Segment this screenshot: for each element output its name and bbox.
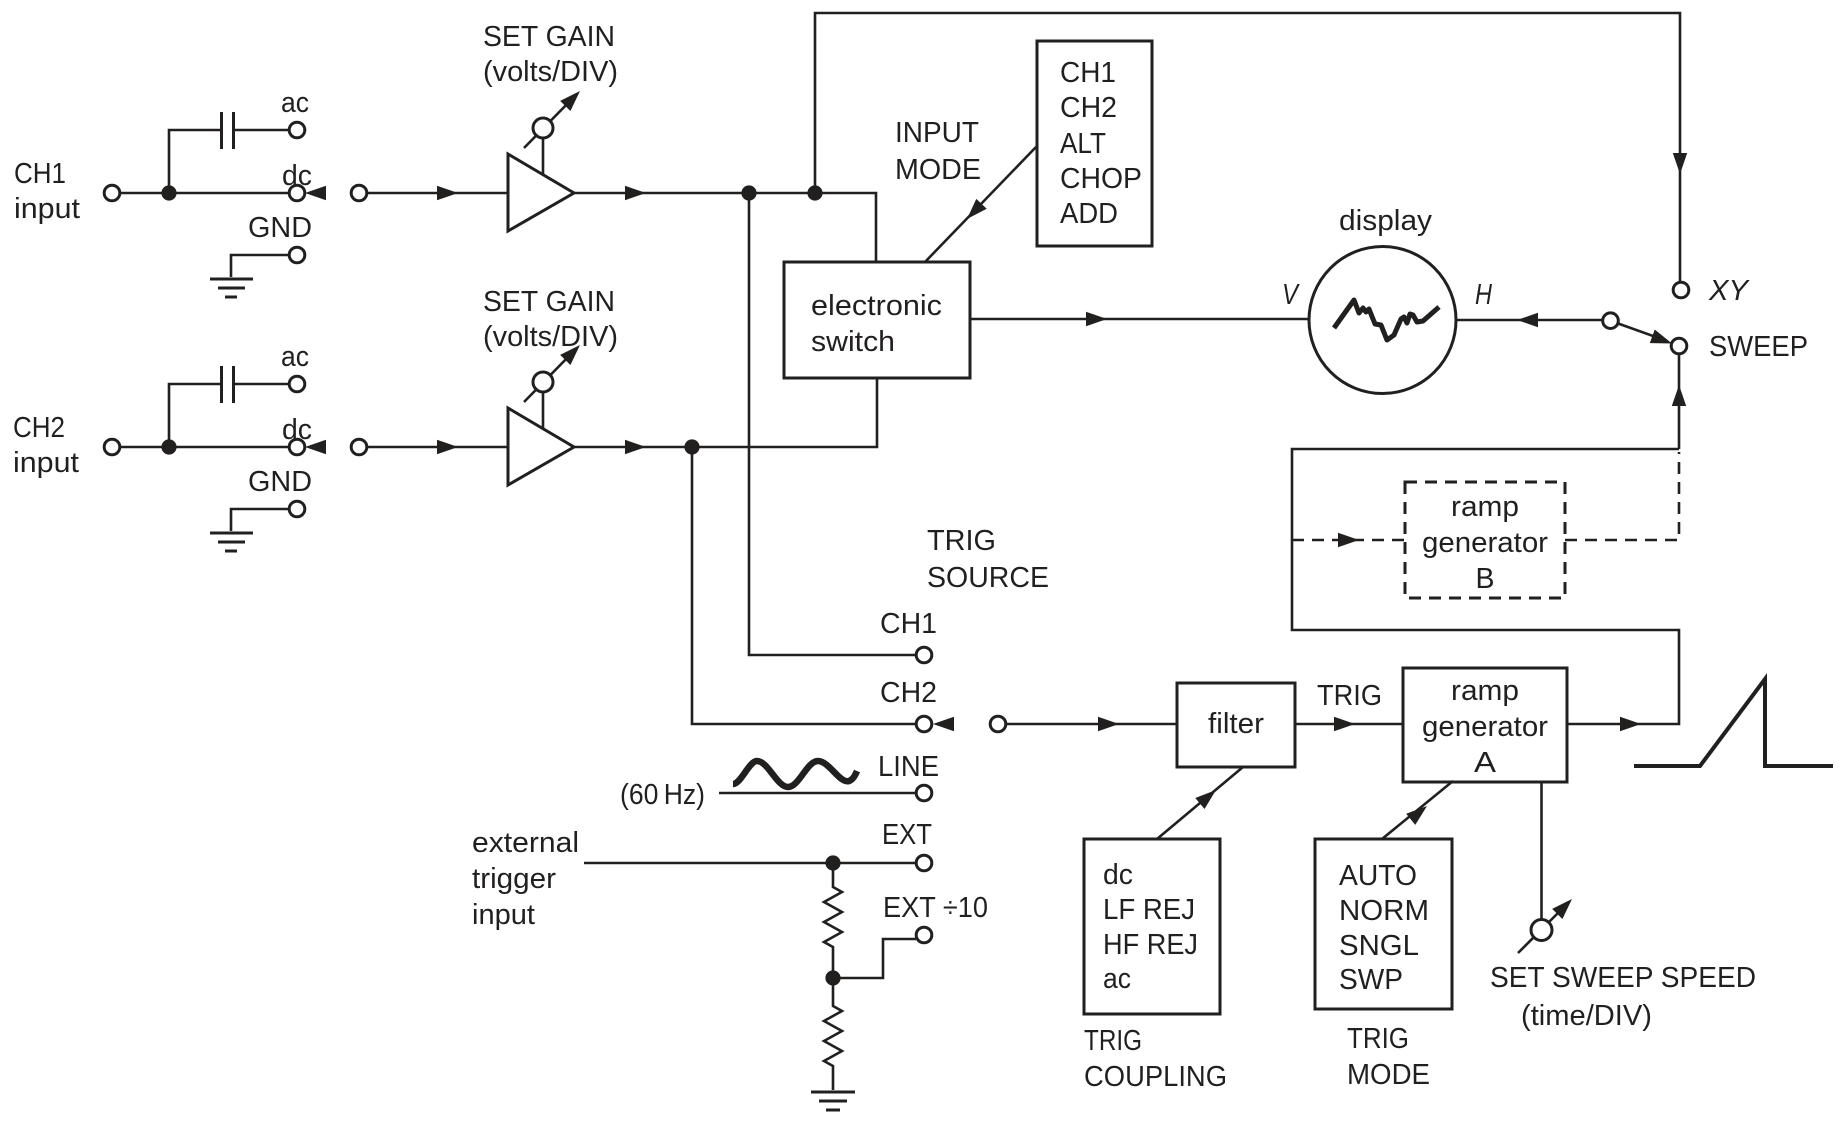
wire external trigger input	[584, 862, 916, 865]
waveform sawtooth sweep ramp	[1634, 679, 1833, 766]
svg-text:SWEEP: SWEEP	[1709, 331, 1808, 363]
svg-text:AUTO: AUTO	[1339, 860, 1417, 892]
svg-text:HF REJ: HF REJ	[1103, 929, 1198, 961]
box ramp generator B	[1405, 482, 1565, 598]
wire sweep switch arm	[1618, 323, 1655, 336]
svg-text:display: display	[1339, 205, 1433, 237]
svg-text:GND: GND	[248, 466, 312, 498]
knob CH2 gain control	[533, 372, 553, 392]
box trig mode list	[1315, 839, 1452, 1009]
terminal CH1 ac contact	[289, 122, 305, 138]
wire CH1 GND contact to ground	[231, 255, 289, 277]
arrow trig source select	[933, 717, 954, 731]
wire CH1 cap to ac contact	[235, 129, 289, 132]
arrow into XY contact	[1673, 153, 1687, 174]
svg-text:SOURCE: SOURCE	[927, 562, 1049, 594]
terminal CH1 input jack	[104, 185, 120, 201]
waveform trace on CRT	[1334, 300, 1439, 340]
amplifier CH2 vertical amp	[508, 408, 574, 485]
wire CH2 trig pickoff	[692, 447, 916, 724]
arrow mode to ramp A	[1406, 800, 1431, 824]
terminal CH2 dc contact	[289, 439, 305, 455]
display CRT circle	[1309, 247, 1456, 394]
arrow filter to ramp A	[1334, 717, 1355, 731]
wire CH2 cap to ac contact	[235, 383, 289, 386]
svg-text:trigger: trigger	[472, 863, 556, 895]
svg-text:H: H	[1475, 279, 1492, 311]
terminal sweep switch pole	[1603, 313, 1619, 329]
capacitor CH2 ac coupling	[220, 366, 223, 403]
wire ramp B input dashed	[1292, 539, 1405, 542]
svg-text:B: B	[1476, 563, 1495, 595]
ground trigger divider	[811, 1091, 855, 1094]
box trig coupling list	[1084, 839, 1220, 1014]
svg-text:input: input	[13, 447, 79, 479]
terminal trig source wiper	[990, 716, 1006, 732]
wire CH1 ac branch	[169, 130, 220, 193]
svg-text:CH2: CH2	[880, 677, 937, 709]
svg-text:EXT: EXT	[882, 819, 932, 851]
terminal SWEEP contact	[1671, 338, 1687, 354]
svg-text:external: external	[472, 827, 579, 859]
svg-text:SWP: SWP	[1339, 964, 1403, 996]
svg-text:ramp: ramp	[1451, 675, 1519, 707]
svg-text:ac: ac	[281, 341, 309, 373]
svg-text:INPUT: INPUT	[895, 117, 979, 149]
box input mode list	[1037, 41, 1152, 246]
resistor R2 divider lower	[824, 985, 842, 1090]
svg-text:ac: ac	[1103, 963, 1131, 995]
arrow trig into filter	[1098, 717, 1119, 731]
svg-text:CH1: CH1	[14, 158, 66, 190]
terminal trig source EXT	[916, 855, 932, 871]
terminal trig source LINE	[916, 785, 932, 801]
wire CH1 wiper to amp	[367, 192, 507, 195]
junction EXT divider top	[825, 855, 840, 870]
terminal CH2 ac contact	[289, 376, 305, 392]
terminal CH1 coupling wiper	[351, 185, 367, 201]
svg-text:SET GAIN: SET GAIN	[483, 21, 615, 53]
svg-text:ADD: ADD	[1060, 198, 1118, 230]
terminal trig source EXT div 10	[916, 927, 932, 943]
arrow CH2 post amp	[625, 440, 646, 454]
svg-text:TRIG: TRIG	[1317, 680, 1382, 712]
wire CH2 input to dc contact	[120, 446, 289, 449]
resistor R1 divider upper	[824, 870, 842, 971]
box ramp generator A	[1403, 668, 1567, 782]
arrow input mode to switch	[962, 199, 987, 224]
wire sweep feed up	[1678, 354, 1681, 449]
svg-text:SET GAIN: SET GAIN	[483, 286, 615, 318]
svg-text:ac: ac	[281, 87, 309, 119]
svg-text:(volts/DIV): (volts/DIV)	[483, 56, 618, 88]
terminal XY contact	[1673, 282, 1689, 298]
arrow into H input	[1517, 313, 1538, 327]
svg-text:CH2: CH2	[13, 412, 65, 444]
wire CH1 input to dc contact	[120, 192, 289, 195]
svg-text:V: V	[1282, 279, 1300, 311]
wire input mode select	[925, 147, 1036, 262]
svg-text:dc: dc	[1103, 859, 1133, 891]
svg-text:TRIG: TRIG	[1347, 1023, 1409, 1055]
svg-text:LINE: LINE	[878, 751, 939, 783]
wire LINE to terminal	[719, 792, 916, 795]
terminal CH2 coupling wiper	[351, 439, 367, 455]
arrow CH2 coupling select	[305, 440, 326, 454]
svg-text:A: A	[1474, 747, 1497, 779]
svg-text:MODE: MODE	[1347, 1059, 1430, 1091]
arrow coupling to filter	[1195, 784, 1220, 809]
svg-text:GND: GND	[248, 212, 312, 244]
arrow CH2 gain knob	[560, 340, 585, 365]
svg-text:electronic: electronic	[811, 290, 942, 322]
wire sweep speed arrow	[1518, 908, 1563, 953]
wire CH1 to XY horizontal input	[815, 13, 1680, 282]
arrow CH2 into amp	[437, 440, 458, 454]
amplifier CH1 vertical amp	[508, 154, 574, 231]
svg-text:input: input	[472, 899, 535, 931]
arrow switch to display	[1086, 312, 1107, 326]
wire CH2 ac branch	[169, 384, 220, 447]
wire CH2 gain knob stem	[542, 390, 545, 428]
svg-text:XY: XY	[1708, 275, 1751, 307]
svg-text:CH2: CH2	[1060, 92, 1117, 124]
wire switch output to display	[970, 318, 1308, 321]
wire CH1 amp output	[574, 193, 876, 262]
junction EXT divider tap	[825, 970, 840, 985]
arrow ramp B input	[1338, 533, 1359, 547]
junction CH2 trig pickoff	[684, 439, 699, 454]
svg-text:NORM: NORM	[1339, 895, 1429, 927]
svg-text:ramp: ramp	[1451, 491, 1519, 523]
junction CH1 trig pickoff	[741, 185, 756, 200]
svg-text:SET SWEEP SPEED: SET SWEEP SPEED	[1490, 962, 1756, 994]
svg-text:(60 Hz): (60 Hz)	[620, 779, 705, 811]
terminal CH1 dc contact	[289, 185, 305, 201]
svg-text:COUPLING: COUPLING	[1084, 1061, 1227, 1093]
wire CH2 GND contact to ground	[231, 509, 289, 531]
box filter	[1177, 683, 1295, 767]
terminal CH1 GND contact	[289, 247, 305, 263]
svg-text:switch: switch	[811, 326, 895, 358]
svg-text:TRIG: TRIG	[1084, 1025, 1142, 1057]
junction CH2 input node	[161, 439, 176, 454]
arrow sweep feed	[1672, 385, 1686, 406]
wire sweep loop	[1292, 449, 1679, 724]
svg-text:SNGL: SNGL	[1339, 930, 1419, 962]
capacitor CH1 ac coupling	[220, 112, 223, 149]
svg-text:MODE: MODE	[895, 154, 981, 186]
svg-text:TRIG: TRIG	[927, 525, 996, 557]
wire CH2 wiper to amp	[367, 446, 507, 449]
svg-text:ALT: ALT	[1060, 128, 1106, 160]
wire CH1 gain knob stem	[542, 136, 545, 174]
svg-text:EXT ÷10: EXT ÷10	[883, 892, 988, 924]
svg-text:filter: filter	[1208, 708, 1264, 740]
arrow ramp A output	[1620, 717, 1641, 731]
svg-text:CH1: CH1	[880, 608, 937, 640]
junction CH1 XY pickoff	[807, 185, 822, 200]
svg-text:(time/DIV): (time/DIV)	[1521, 1000, 1652, 1032]
box electronic switch U1	[784, 262, 970, 378]
wire filter to ramp A	[1295, 723, 1403, 726]
wire EXT divide 10 tap	[833, 939, 916, 978]
ground CH1 coupling	[210, 278, 253, 281]
wire CH1 gain arrow	[524, 99, 572, 148]
arrow switch arm to SWEEP	[1650, 330, 1675, 351]
svg-text:CH1: CH1	[1060, 57, 1116, 89]
svg-text:generator: generator	[1422, 711, 1548, 743]
svg-text:CHOP: CHOP	[1060, 163, 1142, 195]
wire CH2 amp output	[574, 378, 877, 447]
terminal CH2 GND contact	[289, 501, 305, 517]
wire H input from sweep switch	[1457, 319, 1602, 322]
wire ramp B output dashed	[1565, 452, 1679, 540]
knob sweep speed control	[1531, 920, 1552, 941]
waveform line sine 60Hz	[733, 761, 857, 787]
wire CH1 trig pickoff	[749, 193, 916, 655]
ground CH2 coupling	[210, 532, 253, 535]
svg-text:(volts/DIV): (volts/DIV)	[483, 321, 618, 353]
wire trig mode select	[1382, 781, 1453, 839]
terminal trig source CH2	[916, 716, 932, 732]
arrow CH1 post amp	[625, 186, 646, 200]
arrow CH1 into amp	[437, 186, 458, 200]
arrow CH1 coupling select	[305, 186, 326, 200]
terminal CH2 input jack	[104, 439, 120, 455]
wire trig coupling select	[1157, 767, 1243, 839]
svg-text:generator: generator	[1422, 527, 1548, 559]
knob CH1 gain control	[533, 118, 553, 138]
svg-text:input: input	[14, 193, 80, 225]
arrow sweep speed knob	[1552, 894, 1577, 919]
wire trig wiper to filter	[1006, 723, 1177, 726]
arrow CH1 gain knob	[560, 86, 585, 111]
junction CH1 input node	[161, 185, 176, 200]
terminal trig source CH1	[916, 647, 932, 663]
wire CH2 gain arrow	[524, 353, 572, 402]
svg-text:LF REJ: LF REJ	[1103, 894, 1195, 926]
wire ramp A to sweep speed knob	[1540, 782, 1543, 920]
